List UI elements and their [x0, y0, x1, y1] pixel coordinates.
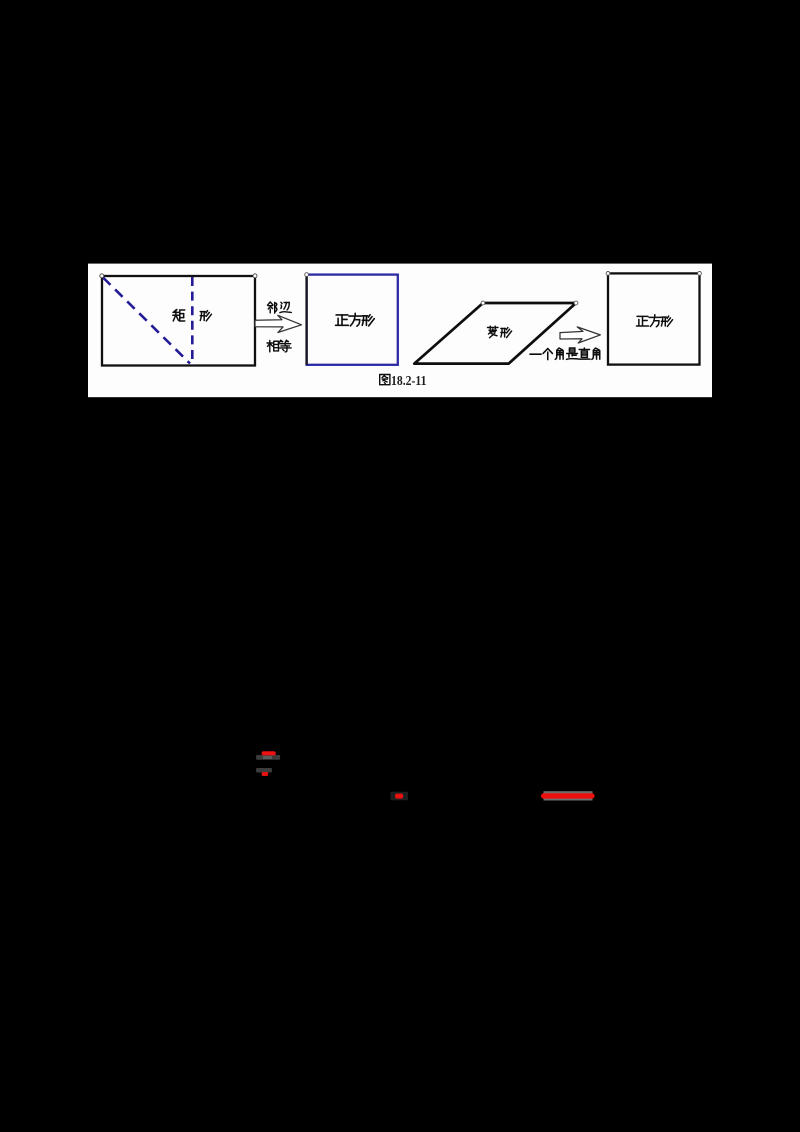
- label 邻边: [267, 302, 291, 313]
- handle circle square2 top-left: [606, 272, 610, 276]
- dashed vertical divider (navy): [191, 277, 194, 365]
- svg-text:18.2-11: 18.2-11: [391, 374, 427, 389]
- white figure panel: [88, 264, 712, 398]
- block arrow 1: [255, 315, 302, 332]
- square 2 (black border): [608, 273, 700, 364]
- red mark 2 with gray base: [256, 768, 272, 773]
- label 矩: [173, 310, 185, 321]
- block arrow 2: [560, 327, 600, 343]
- label 菱形: [488, 326, 512, 338]
- handle circle rect top-right: [253, 274, 257, 278]
- rectangle shape (black): [102, 276, 255, 366]
- handle circle rhombus top-left: [481, 301, 485, 305]
- caption 图18.2-11: [380, 374, 390, 384]
- red mark 3: [391, 792, 409, 800]
- red underline mark 4 with gray base: [544, 791, 593, 800]
- handle circle square2 top-right: [698, 272, 702, 276]
- handle circle rect top-left: [100, 274, 104, 278]
- handle circle square1 top-left: [305, 273, 309, 277]
- handle circle rhombus top-right: [574, 301, 578, 305]
- label 一个角是直角: [530, 348, 600, 360]
- square 1 (navy border): [307, 275, 398, 365]
- label 形: [200, 311, 211, 321]
- red mark 1 with gray base: [256, 755, 280, 760]
- dashed diagonal (navy): [103, 278, 190, 364]
- rhombus (parallelogram shape): [414, 303, 576, 364]
- label 相等: [267, 340, 291, 352]
- label 正方形 (square1): [336, 313, 375, 326]
- label 正方形 (square2): [637, 315, 673, 327]
- square 1 left edge (dark): [305, 275, 307, 365]
